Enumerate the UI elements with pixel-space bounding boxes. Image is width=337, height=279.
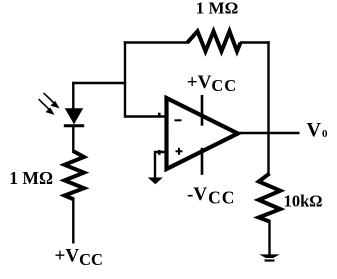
- wire: op-amp output to V0 node: [236, 132, 300, 134]
- svg-text:1 MΩ: 1 MΩ: [196, 0, 238, 18]
- svg-text:V0: V0: [307, 119, 328, 141]
- svg-text:-VCC: -VCC: [187, 184, 235, 208]
- wire: load resistor down to ground: [268, 220, 270, 255]
- op-amp plus sign (non-inverting input marker): [176, 148, 183, 155]
- photodiode D1 (anode triangle + cathode bar): [64, 108, 84, 125]
- op-amp negative supply pin: [201, 148, 204, 175]
- wire: non-inverting input stub: [155, 152, 165, 178]
- wire: photodiode cathode vertical stub: [72, 82, 74, 110]
- svg-text:+VCC: +VCC: [55, 246, 103, 269]
- op-amp positive supply pin: [201, 95, 204, 126]
- svg-text:10kΩ: 10kΩ: [284, 191, 323, 210]
- wire: right vertical from feedback down through output node to 10k resistor: [267, 41, 269, 175]
- ground symbol (arrow style) at non-inverting input: [148, 178, 163, 185]
- light arrow 2 (lower) into photodiode: [39, 99, 55, 115]
- wire: bias resistor down to +VCC supply: [72, 198, 74, 244]
- ground symbol (tapered bars) below load resistor: [259, 254, 279, 261]
- wire: left vertical (inverting net) from feedback down to op-amp minus input: [124, 41, 126, 117]
- resistor 10kΩ (load) vertical zigzag: [259, 174, 281, 222]
- svg-text:+VCC: +VCC: [187, 72, 237, 95]
- wire: feedback top-right horizontal segment: [240, 41, 270, 43]
- resistor 1 MΩ (feedback) zigzag: [188, 31, 241, 51]
- wire: photodiode cathode horizontal to inverting net: [72, 82, 126, 84]
- light arrow 1 (upper) into photodiode: [44, 93, 60, 109]
- wire: inverting input horizontal into op-amp: [125, 115, 165, 117]
- resistor 1 MΩ (bias) vertical zigzag: [65, 152, 85, 200]
- pin tick: inverting input: [158, 113, 161, 118]
- wire: feedback net, top-left horizontal segment: [124, 41, 189, 43]
- pin tick: non-inverting input: [158, 150, 161, 155]
- op-amp U1 triangle: [167, 98, 238, 169]
- svg-text:1 MΩ: 1 MΩ: [9, 168, 53, 188]
- op-amp minus sign (inverting input marker): [175, 119, 182, 121]
- wire: photodiode anode down to bias resistor: [72, 126, 74, 153]
